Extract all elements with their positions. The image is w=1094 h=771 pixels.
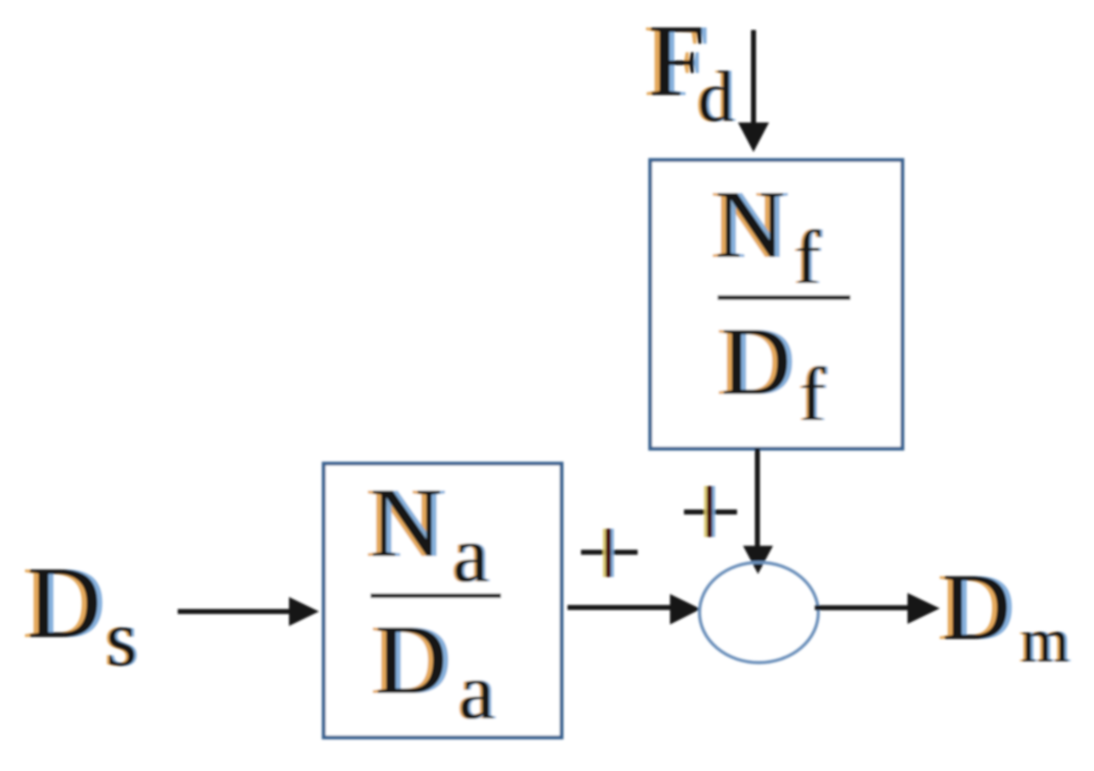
fraction bar Na/Da bbox=[371, 594, 501, 599]
svg-text:D: D bbox=[721, 308, 791, 415]
svg-text:m: m bbox=[1021, 607, 1069, 675]
block U1 Nf/Df bbox=[650, 160, 902, 449]
node Dm label bbox=[937, 554, 1072, 675]
block U2 Na/Da bbox=[324, 464, 562, 738]
svg-text:D: D bbox=[942, 554, 1011, 660]
node Ds label bbox=[22, 546, 140, 683]
svg-text:s: s bbox=[106, 595, 137, 683]
plus sign at left input of summing junction bbox=[581, 529, 638, 577]
node Fd label bbox=[643, 4, 737, 137]
label Da denominator bbox=[370, 604, 497, 736]
label Nf numerator bbox=[710, 171, 824, 300]
svg-text:N: N bbox=[370, 467, 442, 578]
svg-text:a: a bbox=[453, 511, 489, 599]
wire arrow from block Nf/Df into summing junction bbox=[743, 448, 773, 574]
wire arrow from Fd into block Nf/Df bbox=[738, 30, 769, 152]
svg-text:d: d bbox=[698, 57, 734, 137]
svg-text:f: f bbox=[795, 216, 821, 300]
wire arrow from Ds into block Na/Da bbox=[178, 597, 319, 626]
wire arrow from summing junction to Dm bbox=[815, 593, 940, 624]
svg-text:f: f bbox=[800, 353, 826, 437]
svg-text:a: a bbox=[459, 648, 495, 736]
fraction bar Nf/Df bbox=[718, 295, 851, 300]
svg-text:N: N bbox=[715, 171, 785, 278]
svg-text:D: D bbox=[27, 546, 101, 660]
wire arrow from block Na/Da into summing junction bbox=[568, 594, 701, 625]
summing junction bbox=[700, 562, 819, 662]
label Na numerator bbox=[365, 467, 491, 599]
label Df denominator bbox=[716, 308, 829, 437]
plus sign at top input of summing junction bbox=[684, 486, 737, 537]
svg-text:D: D bbox=[375, 604, 447, 715]
